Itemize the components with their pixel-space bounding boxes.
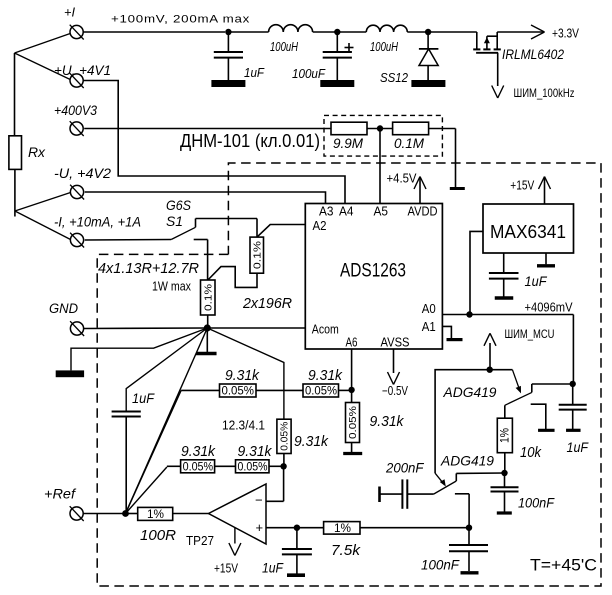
wire R11 to node B: [269, 465, 284, 467]
node A0 junction: [466, 311, 472, 317]
wire S1 rail to R 2x196R: [196, 219, 258, 238]
wire R9 to node B: [283, 454, 285, 467]
svg-text:1%: 1%: [147, 507, 164, 521]
ground below C4: [495, 296, 514, 299]
svg-text:1%: 1%: [500, 428, 512, 443]
wire A1 to ground: [442, 326, 451, 338]
svg-text:SS12: SS12: [380, 70, 409, 85]
wire U4 to 1uF node: [532, 383, 573, 385]
wire GND to star node: [84, 327, 208, 330]
resistor R11 9.31k 0.05%: [236, 444, 273, 473]
capacitor C1 1uF: [214, 32, 265, 80]
wire 196R bottom Z to shunt: [208, 267, 257, 288]
switch S1 contact A: [195, 219, 197, 228]
wire node B to opamp minus: [266, 466, 284, 501]
resistor R10 9.31k 0.05%: [181, 444, 216, 473]
svg-text:ADG419: ADG419: [440, 453, 494, 469]
resistor R12 100R 1%: [138, 507, 177, 544]
wire star to C3: [126, 328, 207, 412]
svg-text:+15V: +15V: [510, 179, 535, 193]
svg-text:0.05%: 0.05%: [279, 422, 291, 451]
label +100mV 200mA max: [111, 14, 250, 26]
svg-text:-U, +4V2: -U, +4V2: [54, 166, 112, 181]
wire shunt to star node: [207, 315, 209, 328]
diode D1 SS12 schottky: [380, 32, 438, 85]
svg-text:A5: A5: [374, 205, 389, 219]
node divider tap: [377, 125, 383, 131]
pin A3: [319, 205, 334, 219]
wire PWM to switch1: [490, 370, 521, 394]
svg-text:4x1.13R+12.7R: 4x1.13R+12.7R: [98, 261, 200, 277]
op-amp U2 TP27: [186, 484, 266, 548]
wire fan2 to -U: [15, 193, 71, 212]
terminal +I: [64, 5, 84, 40]
pin A1: [422, 320, 436, 334]
ground below C2: [320, 80, 354, 87]
node PWM junction: [487, 367, 493, 373]
wire Q1 gate down: [497, 53, 499, 86]
ground below star node: [196, 328, 217, 354]
label +400V3: [54, 103, 97, 118]
svg-text:9.31k: 9.31k: [238, 444, 273, 460]
ground below R7: [343, 452, 362, 455]
dnm dashed box: [324, 115, 442, 156]
svg-text:+400V3: +400V3: [54, 103, 97, 118]
label -U +4V2: [54, 166, 112, 181]
svg-text:9.31k: 9.31k: [294, 434, 329, 450]
wire R5 to R6: [256, 389, 303, 391]
label ADG419 lower: [440, 453, 494, 469]
node junction at C1: [225, 29, 231, 35]
svg-text:AVDD: AVDD: [408, 205, 438, 219]
capacitor C7 200nF series: [380, 479, 434, 508]
svg-text:1uF: 1uF: [262, 561, 284, 576]
wire star to Acom: [207, 327, 305, 329]
inductor L2 100uH: [366, 25, 407, 54]
resistor 0.1M: [393, 122, 429, 151]
wire +I to node1: [83, 31, 225, 33]
pin A5: [374, 205, 389, 219]
svg-text:+3.3V: +3.3V: [552, 26, 579, 41]
arrow +15V MAX: [510, 177, 550, 205]
svg-text:0.05%: 0.05%: [183, 461, 214, 473]
ic U1 ADS1263 box: [305, 204, 442, 350]
label shunt value: [98, 261, 200, 277]
svg-text:0.05%: 0.05%: [305, 386, 337, 398]
svg-text:9.31k: 9.31k: [370, 414, 405, 430]
arrow +4.5V AVDD: [387, 172, 427, 204]
resistor shunt 0.1%: [201, 280, 216, 315]
wire Rx to fan2: [14, 169, 16, 216]
svg-text:9.31k: 9.31k: [308, 368, 343, 384]
svg-text:1uF: 1uF: [525, 274, 548, 289]
opamp supply arrow -15V: [214, 527, 241, 575]
label +U +4V1: [54, 63, 111, 78]
ground below C5: [566, 429, 581, 432]
terminal +U: [70, 73, 84, 88]
switch U5 NC contact to node D: [455, 494, 469, 528]
ground below C1: [211, 80, 245, 87]
pin A2: [313, 219, 327, 233]
node junction at D1: [425, 29, 431, 35]
ic U3 MAX6341 box: [483, 204, 574, 253]
label ADG419 upper: [443, 384, 497, 400]
svg-text:0.1%: 0.1%: [251, 241, 263, 269]
wire A6 pin down: [351, 349, 353, 390]
wire +U to A4: [83, 81, 345, 204]
resistor R9 9.31k 0.05% vertical: [277, 419, 329, 453]
ground below MAX: [537, 264, 555, 267]
svg-text:ШИМ_100kHz: ШИМ_100kHz: [514, 86, 575, 100]
pin AVSS: [381, 335, 410, 349]
ground below D1: [411, 80, 445, 87]
terminal -I: [70, 233, 84, 248]
svg-text:0.1M: 0.1M: [394, 136, 425, 151]
svg-text:AVSS: AVSS: [381, 335, 410, 349]
wire +Ref to node: [83, 513, 125, 515]
svg-text:100nF: 100nF: [518, 496, 555, 511]
wire L2 to node3: [407, 31, 428, 33]
wire node1 to L1: [228, 31, 268, 33]
switch U5 contact stub: [455, 473, 457, 481]
svg-text:10k: 10k: [520, 445, 542, 461]
label 200nF: [385, 460, 425, 476]
svg-text:0.05%: 0.05%: [347, 406, 359, 439]
svg-text:9.9M: 9.9M: [333, 136, 364, 151]
node E junction: [501, 470, 507, 476]
wire fan2 to -I: [15, 211, 71, 240]
inductor L1 100uH: [269, 25, 313, 54]
ic U1 label: [340, 260, 406, 282]
wire R13 to node D: [360, 527, 469, 529]
wire star to chassis: [71, 328, 207, 370]
wire node2 to L2: [337, 31, 366, 33]
switch U4 contact stub: [531, 384, 533, 392]
transistor Q1 IRLML6402 p-mosfet: [473, 32, 564, 62]
wire ref node to R 100R: [126, 513, 138, 515]
capacitor C9 100nF: [421, 528, 488, 573]
svg-text:GND: GND: [49, 301, 78, 316]
svg-text:A3: A3: [319, 205, 334, 219]
switch S1 blade: [171, 227, 195, 239]
svg-text:+Ref: +Ref: [44, 487, 76, 502]
terminal +Ref: [70, 506, 84, 521]
switch U4 blade: [505, 392, 532, 405]
resistor R13 7.5k 1%: [324, 521, 361, 559]
label +4096mV: [525, 301, 574, 315]
svg-text:100uH: 100uH: [270, 39, 298, 54]
svg-text:100uH: 100uH: [370, 39, 398, 54]
svg-text:100R: 100R: [140, 528, 177, 544]
pin Acom: [312, 323, 339, 337]
resistor R6 9.31k 0.05%: [303, 368, 343, 398]
switch S1 contact B wire: [194, 240, 208, 281]
svg-text:ШИМ_MCU: ШИМ_MCU: [505, 327, 555, 341]
svg-text:S1: S1: [166, 213, 183, 229]
wire -I to S1: [85, 239, 172, 242]
svg-text:200nF: 200nF: [385, 460, 425, 476]
wire +400V3 to R 9.9M: [84, 128, 331, 130]
svg-text:A4: A4: [339, 205, 354, 219]
node A6 junction: [348, 387, 354, 393]
wire L1 to node2: [313, 31, 338, 33]
wire node C to R13: [297, 527, 324, 529]
wire Q1 drain to +3.3V: [497, 31, 544, 33]
svg-text:+15V: +15V: [214, 562, 239, 576]
wire C3 to ref node: [125, 417, 127, 514]
wire 100R to opamp: [173, 513, 209, 515]
svg-text:ADG419: ADG419: [443, 384, 497, 400]
node junction at C2: [334, 29, 340, 35]
svg-text:2x196R: 2x196R: [242, 296, 292, 312]
svg-text:+100mV, 200mA max: +100mV, 200mA max: [111, 14, 250, 26]
svg-text:12.3/4.1: 12.3/4.1: [222, 419, 265, 433]
terminal +400V3: [70, 121, 84, 136]
node B junction: [280, 463, 286, 469]
svg-text:TP27: TP27: [186, 533, 214, 548]
svg-text:7.5k: 7.5k: [331, 543, 361, 559]
thermostat dashed boundary: [97, 163, 601, 586]
label GND: [49, 301, 78, 316]
svg-text:G6S: G6S: [166, 197, 192, 213]
switch U5 blade: [434, 481, 457, 494]
pin A0: [422, 302, 436, 316]
ground below C8: [287, 573, 305, 577]
pin AVDD: [408, 205, 438, 219]
svg-text:ADS1263: ADS1263: [340, 260, 406, 282]
resistor 9.9M: [331, 122, 367, 151]
wire R6 to node A6: [339, 389, 352, 391]
wire 0.1M to ground: [429, 129, 456, 189]
wire R7 to ground: [351, 443, 353, 454]
wire fan to +I: [15, 34, 71, 54]
wire node to R7: [351, 390, 353, 403]
wire 9.9M to 0.1M: [367, 128, 393, 130]
svg-text:1uF: 1uF: [132, 391, 155, 406]
svg-text:A6: A6: [346, 335, 358, 349]
wire fan to +U: [15, 53, 71, 80]
svg-text:IRLML6402: IRLML6402: [502, 46, 564, 62]
capacitor C4 1uF: [489, 253, 547, 297]
resistor 2x196R 0.1%: [242, 237, 292, 312]
svg-text:+4096mV: +4096mV: [525, 301, 574, 315]
svg-text:100nF: 100nF: [421, 558, 460, 573]
svg-text:9.31k: 9.31k: [181, 444, 216, 460]
svg-text:0.05%: 0.05%: [222, 386, 255, 398]
svg-text:Rx: Rx: [28, 144, 46, 160]
wire R10 to R11: [215, 465, 236, 467]
label 12.3/4.1: [222, 419, 265, 433]
node ref junction: [122, 510, 129, 517]
node 1uF right junction: [570, 381, 576, 387]
ic U3 label: [490, 221, 566, 242]
resistor Rx: [9, 136, 46, 170]
switch U4 NC contact to ground: [531, 404, 546, 429]
wire U4 common to R14: [504, 405, 506, 418]
terminal GND: [70, 321, 84, 336]
wire U5 to node E: [456, 472, 504, 474]
chassis ground bar: [56, 370, 84, 377]
resistor R14 10k 1%: [497, 418, 541, 461]
svg-text:1W max: 1W max: [152, 280, 192, 294]
pin A4: [339, 205, 354, 219]
svg-text:A1: A1: [422, 320, 436, 334]
wire -U to A3: [85, 192, 326, 204]
label G6S: [166, 197, 192, 213]
label -I +10mA +1A: [54, 215, 141, 230]
star node: [204, 324, 211, 331]
label DNM-101: [180, 131, 320, 151]
capacitor C2 100uF polarized: [292, 32, 354, 81]
label T=+45C: [530, 556, 597, 575]
wire node3 to Q1: [428, 31, 477, 33]
svg-text:−0.5V: −0.5V: [382, 384, 409, 398]
svg-text:MAX6341: MAX6341: [490, 221, 566, 242]
svg-text:-I, +10mA, +1A: -I, +10mA, +1A: [54, 215, 141, 230]
svg-text:−: −: [255, 493, 263, 508]
svg-text:100uF: 100uF: [292, 66, 326, 81]
arrow PWM gate input: [492, 86, 575, 101]
terminal -U: [70, 185, 84, 200]
svg-text:1uF: 1uF: [567, 440, 589, 455]
wire R14 to node E: [504, 453, 506, 473]
label 1W max: [152, 280, 192, 294]
svg-text:+4.5V: +4.5V: [387, 172, 418, 186]
svg-text:1uF: 1uF: [244, 65, 265, 80]
ground below C6: [497, 511, 512, 514]
arrow +3.3V output: [531, 25, 579, 41]
arrow -0.5V AVSS: [382, 349, 409, 398]
svg-text:ДНМ-101 (кл.0.01): ДНМ-101 (кл.0.01): [180, 131, 320, 151]
ground below A1: [447, 338, 463, 341]
label S1: [166, 213, 183, 229]
svg-text:T=+45'C: T=+45'C: [530, 556, 597, 575]
wire A2 to 196R top: [257, 225, 305, 238]
svg-text:0.05%: 0.05%: [238, 461, 268, 473]
wire divider tap to A5: [379, 129, 381, 204]
wire A0 to +4096mV: [442, 315, 573, 384]
wire star to R9 top: [207, 328, 284, 419]
capacitor C6 100nF: [491, 473, 555, 512]
arrow PWM MCU: [484, 327, 555, 370]
pin A6: [346, 335, 358, 349]
svg-text:A2: A2: [313, 219, 327, 233]
wire MAX gnd pin: [545, 253, 547, 264]
label +Ref: [44, 487, 76, 502]
svg-text:A0: A0: [422, 302, 436, 316]
wire PWM to switch2: [435, 370, 490, 487]
capacitor C3 1uF: [112, 391, 155, 417]
svg-text:1%: 1%: [334, 521, 351, 535]
svg-text:9.31k: 9.31k: [225, 368, 260, 384]
node D junction: [466, 525, 472, 531]
wire fan1 to Rx: [14, 53, 16, 136]
ground below 0.1M: [450, 187, 465, 190]
ground below U4 NC: [538, 429, 555, 432]
wire ref node to row3: [126, 466, 181, 513]
resistor R7 9.31k 0.05% vertical: [346, 403, 405, 443]
wire star to ref node: [126, 328, 208, 514]
node C junction: [294, 525, 300, 531]
resistor R5 9.31k 0.05%: [220, 368, 260, 398]
capacitor C8 1uF: [262, 528, 312, 576]
wire ref node to row1: [126, 390, 220, 513]
wire MAX out to A0 node: [470, 231, 483, 314]
svg-text:Acom: Acom: [312, 323, 339, 337]
wire opamp plus to node C: [266, 527, 297, 529]
svg-text:+: +: [256, 520, 264, 535]
svg-text:0.1%: 0.1%: [202, 284, 214, 311]
ground below C9: [461, 571, 479, 574]
svg-text:+I: +I: [64, 5, 75, 20]
capacitor C5 1uF: [559, 384, 589, 455]
